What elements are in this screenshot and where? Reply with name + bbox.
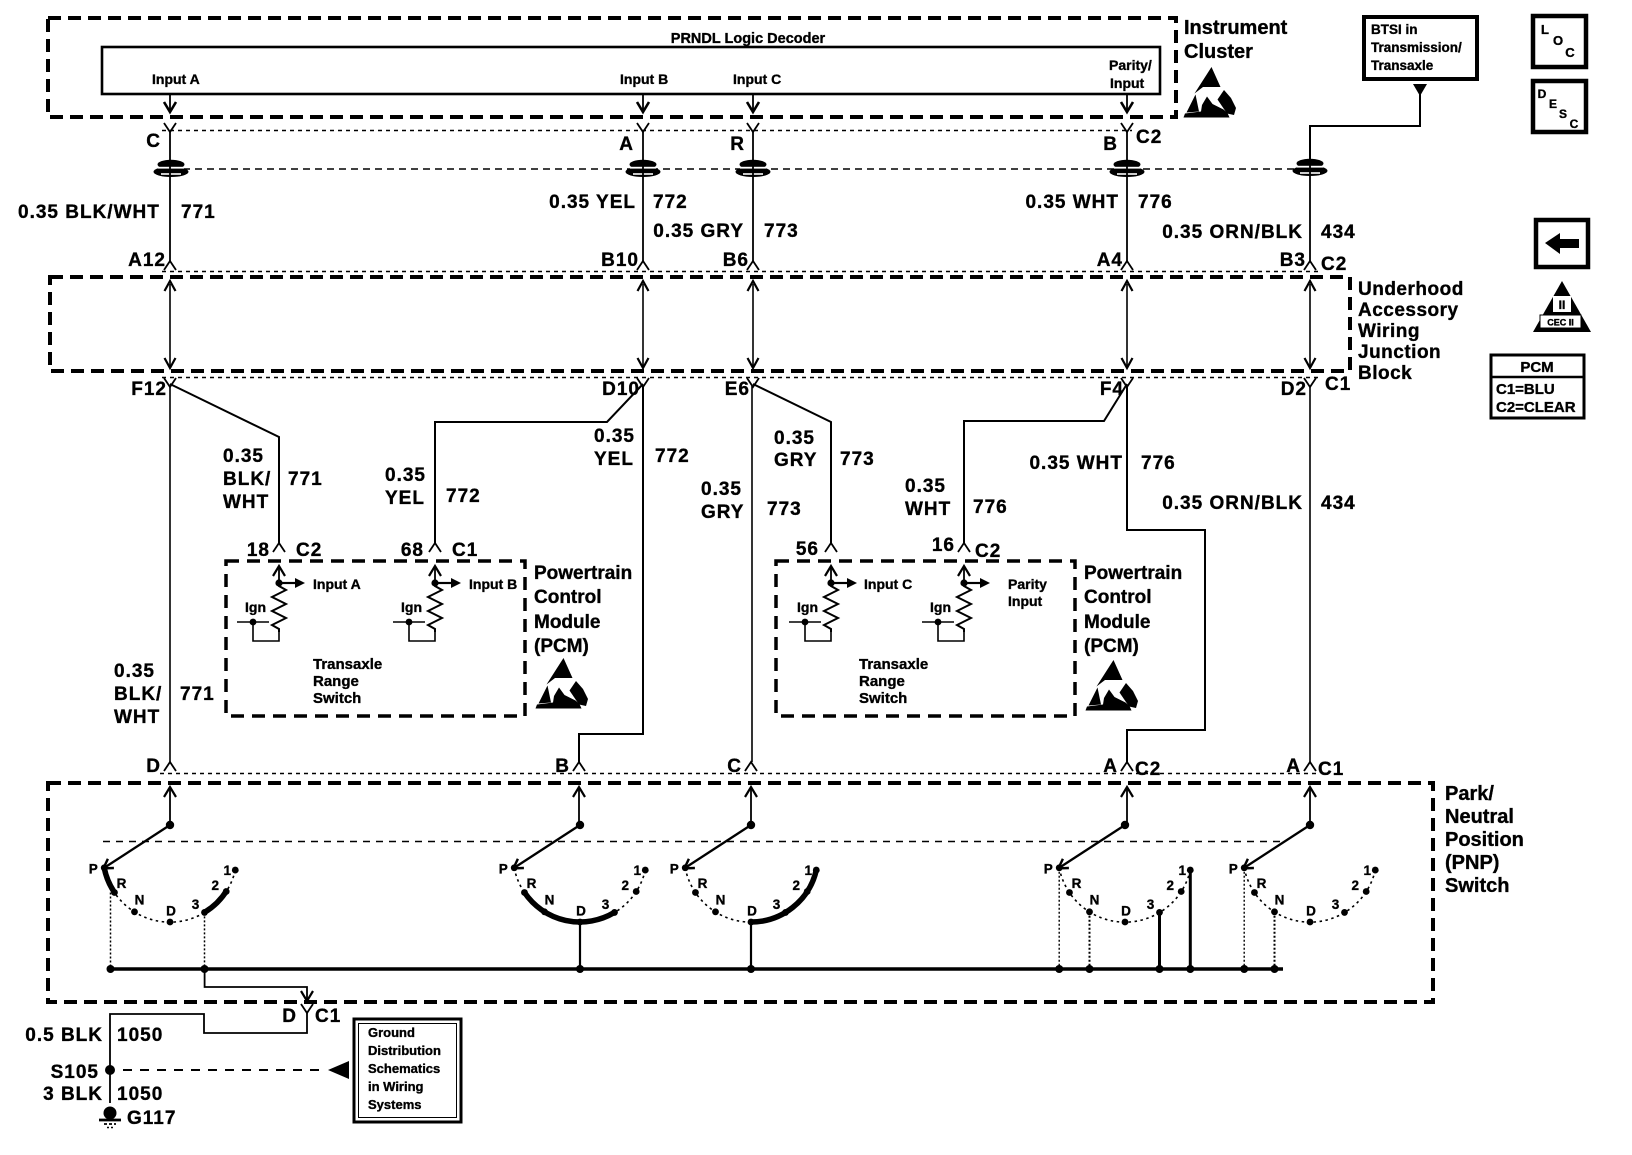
svg-text:Junction: Junction bbox=[1358, 342, 1441, 363]
svg-text:0.35: 0.35 bbox=[701, 479, 742, 500]
svg-text:Cluster: Cluster bbox=[1184, 41, 1253, 63]
svg-text:C1: C1 bbox=[315, 1006, 341, 1027]
wire 434 upper bbox=[1309, 160, 1311, 261]
PNP switch 4 contact D bbox=[1122, 919, 1129, 926]
svg-text:771: 771 bbox=[181, 202, 216, 223]
svg-text:D: D bbox=[747, 904, 757, 919]
PNP pin B fork bbox=[573, 762, 585, 771]
PNP switch 1 contact 2 bbox=[223, 888, 230, 895]
resistor input C circuit bbox=[825, 566, 837, 576]
junction block internal wire x=643 bbox=[642, 284, 644, 366]
CEC II triangle icon bbox=[1533, 281, 1591, 332]
PNP switch 1 tap wire from R bbox=[110, 893, 112, 970]
svg-text:F4: F4 bbox=[1100, 379, 1124, 400]
pin E6 fork bbox=[747, 378, 759, 387]
svg-text:Input C: Input C bbox=[733, 71, 781, 87]
svg-text:P: P bbox=[1229, 862, 1238, 877]
pin 18 C2 fork bbox=[273, 543, 285, 552]
pin F4 fork bbox=[1121, 378, 1133, 387]
svg-text:Parity: Parity bbox=[1008, 576, 1047, 592]
instrument cluster box bbox=[48, 18, 1176, 117]
wire 771 mid bbox=[169, 386, 171, 762]
svg-text:1: 1 bbox=[1179, 863, 1187, 878]
svg-text:P: P bbox=[1044, 862, 1053, 877]
PNP switch 4 tap wire from N bbox=[1089, 912, 1091, 969]
svg-text:D: D bbox=[1306, 904, 1316, 919]
PNP switch 3 wiper pivot bbox=[750, 788, 752, 825]
svg-text:1: 1 bbox=[634, 863, 642, 878]
PNP pin D fork bbox=[164, 762, 176, 771]
svg-text:Transaxle: Transaxle bbox=[1371, 58, 1434, 73]
PNP switch 4 contact 2 bbox=[1178, 888, 1185, 895]
svg-text:3: 3 bbox=[1147, 897, 1155, 912]
PNP switch 1 closed contact segment bbox=[104, 868, 114, 893]
svg-text:A: A bbox=[1103, 756, 1118, 777]
wire 773 mid bbox=[751, 386, 753, 762]
PNP switch 1 contact 1 bbox=[232, 867, 239, 874]
svg-text:0.35 GRY: 0.35 GRY bbox=[653, 221, 744, 242]
svg-text:C: C bbox=[146, 131, 161, 152]
svg-text:776: 776 bbox=[973, 497, 1008, 518]
svg-text:GRY: GRY bbox=[774, 450, 817, 471]
ground wire staircase bbox=[110, 1013, 307, 1103]
svg-text:Input B: Input B bbox=[469, 576, 517, 592]
svg-text:O: O bbox=[1553, 33, 1563, 48]
svg-text:Distribution: Distribution bbox=[368, 1043, 441, 1058]
splice S105 bbox=[105, 1065, 115, 1075]
PNP switch 3 contact P bbox=[682, 864, 689, 871]
ESD symbol PCM 2 bbox=[1086, 660, 1139, 711]
PNP switch 2 contact 3 bbox=[611, 909, 618, 916]
svg-text:WHT: WHT bbox=[905, 499, 951, 520]
PNP switch 4 contact P bbox=[1056, 864, 1063, 871]
PNP switch 1 contact N bbox=[131, 908, 138, 915]
svg-text:C1=BLU: C1=BLU bbox=[1496, 381, 1555, 398]
ground exit pin D C1 fork bbox=[301, 1004, 313, 1013]
svg-text:N: N bbox=[1275, 893, 1285, 908]
svg-text:Powertrain: Powertrain bbox=[1084, 563, 1182, 584]
svg-text:3 BLK: 3 BLK bbox=[43, 1084, 103, 1105]
svg-text:N: N bbox=[545, 893, 555, 908]
wire 434 from BTSI bbox=[1310, 94, 1420, 160]
ESD symbol instrument cluster bbox=[1184, 67, 1237, 118]
pin A12 fork bbox=[164, 261, 176, 270]
PNP ground bus bbox=[110, 967, 1283, 971]
svg-text:1050: 1050 bbox=[117, 1084, 163, 1105]
svg-text:C2: C2 bbox=[296, 540, 322, 561]
svg-text:776: 776 bbox=[1141, 453, 1176, 474]
svg-text:Input A: Input A bbox=[152, 71, 200, 87]
junction block internal wire x=1127 bbox=[1126, 284, 1128, 366]
PNP switch 2 contact N bbox=[541, 908, 548, 915]
svg-text:3: 3 bbox=[1332, 897, 1340, 912]
PNP switch 3 tap wire from D bbox=[750, 922, 752, 969]
svg-text:Park/: Park/ bbox=[1445, 783, 1494, 805]
PNP switch 2 contact R bbox=[521, 889, 528, 896]
PNP switch 5 contact 2 bbox=[1363, 888, 1370, 895]
svg-text:1: 1 bbox=[1364, 863, 1372, 878]
park/neutral position switch box bbox=[48, 783, 1433, 1002]
svg-text:R: R bbox=[117, 876, 127, 891]
svg-text:Transaxle: Transaxle bbox=[313, 656, 382, 673]
svg-text:0.35: 0.35 bbox=[385, 465, 426, 486]
svg-text:B: B bbox=[555, 756, 570, 777]
PNP switch 2 wiper pivot bbox=[578, 788, 580, 825]
svg-text:C: C bbox=[727, 756, 742, 777]
PNP switch 5 tap wire from P bbox=[1243, 868, 1245, 969]
svg-text:C: C bbox=[1570, 117, 1579, 131]
pin F12 fork bbox=[164, 378, 176, 387]
svg-text:A12: A12 bbox=[128, 250, 166, 271]
pin 68 C1 fork bbox=[429, 543, 441, 552]
svg-text:R: R bbox=[1257, 876, 1267, 891]
svg-text:16: 16 bbox=[932, 535, 955, 556]
svg-text:Ign: Ign bbox=[797, 599, 818, 615]
PNP switch 5 contact arc bbox=[1244, 868, 1375, 922]
svg-text:G117: G117 bbox=[127, 1108, 176, 1129]
svg-text:772: 772 bbox=[653, 192, 688, 213]
PNP switch 2 contact D bbox=[577, 919, 584, 926]
wire 772 mid bbox=[579, 386, 643, 762]
svg-text:Instrument: Instrument bbox=[1184, 17, 1288, 39]
PNP switch 5 contact D bbox=[1307, 919, 1314, 926]
PNP switch 1 contact 3 bbox=[201, 909, 208, 916]
PNP pin A-C2 fork bbox=[1121, 762, 1133, 771]
svg-text:18: 18 bbox=[247, 540, 270, 561]
svg-text:0.35: 0.35 bbox=[774, 428, 815, 449]
svg-text:C2: C2 bbox=[1321, 254, 1347, 275]
pin 16 C2 fork bbox=[958, 543, 970, 552]
wire Input B output arrow bbox=[642, 94, 644, 110]
wire Input C output arrow bbox=[752, 94, 754, 110]
PNP switch 5 contact N bbox=[1271, 908, 1278, 915]
svg-text:773: 773 bbox=[767, 499, 802, 520]
svg-text:772: 772 bbox=[655, 446, 690, 467]
svg-text:0.35: 0.35 bbox=[905, 476, 946, 497]
svg-text:2: 2 bbox=[1351, 878, 1359, 893]
PNP switch 2 closed contact segment bbox=[525, 893, 615, 922]
svg-text:1: 1 bbox=[224, 863, 232, 878]
pin B6 fork bbox=[747, 261, 759, 270]
svg-text:Input A: Input A bbox=[313, 576, 361, 592]
PNP switch 1 wiper arm bbox=[103, 825, 170, 869]
svg-text:E: E bbox=[1549, 97, 1557, 111]
svg-text:PCM: PCM bbox=[1520, 359, 1553, 376]
svg-text:2: 2 bbox=[621, 878, 629, 893]
svg-text:0.35 WHT: 0.35 WHT bbox=[1025, 192, 1119, 213]
ground distribution reference box bbox=[354, 1019, 461, 1122]
svg-text:Underhood: Underhood bbox=[1358, 279, 1464, 300]
svg-text:D: D bbox=[1538, 87, 1547, 101]
svg-text:D10: D10 bbox=[602, 379, 640, 400]
pin C fork bbox=[164, 123, 176, 132]
svg-text:A: A bbox=[619, 134, 634, 155]
PNP switch 2 wiper arm bbox=[513, 825, 580, 869]
wire 772 upper bbox=[642, 131, 644, 261]
svg-text:B10: B10 bbox=[601, 250, 639, 271]
PNP switch 4 wiper arm bbox=[1058, 825, 1125, 869]
wire 776 upper bbox=[1126, 131, 1128, 261]
svg-text:Ign: Ign bbox=[930, 599, 951, 615]
resistor input B circuit bbox=[429, 566, 441, 576]
svg-text:A: A bbox=[1286, 756, 1301, 777]
svg-text:A4: A4 bbox=[1097, 250, 1123, 271]
svg-text:Input C: Input C bbox=[864, 576, 912, 592]
PNP switch 3 contact arc bbox=[685, 868, 816, 922]
svg-text:0.35 ORN/BLK: 0.35 ORN/BLK bbox=[1162, 493, 1303, 514]
ground G117 symbol bbox=[104, 1107, 117, 1120]
svg-text:C1: C1 bbox=[1318, 759, 1344, 780]
svg-text:B3: B3 bbox=[1280, 250, 1306, 271]
PNP switch 3 wiper arm bbox=[684, 825, 751, 869]
resistor input A circuit bbox=[273, 566, 285, 576]
PNP switch 4 tap wire from 3 bbox=[1158, 912, 1161, 969]
junction block internal wire x=753 bbox=[752, 284, 754, 366]
svg-text:R: R bbox=[1072, 876, 1082, 891]
PNP switch 1 contact D bbox=[167, 919, 174, 926]
PNP switch 1 wiper pivot bbox=[169, 788, 171, 825]
PNP switch 5 tap wire from N bbox=[1274, 912, 1276, 969]
svg-text:Control: Control bbox=[1084, 587, 1152, 608]
svg-text:C1: C1 bbox=[452, 540, 478, 561]
PNP switch 4 contact arc bbox=[1059, 868, 1190, 922]
svg-text:WHT: WHT bbox=[223, 492, 269, 513]
svg-text:YEL: YEL bbox=[594, 449, 634, 470]
svg-text:D: D bbox=[146, 756, 161, 777]
wire 773 branch to PCM bbox=[753, 384, 831, 543]
wire 434 mid bbox=[1309, 386, 1311, 762]
PNP switch 2 tap wire from D bbox=[579, 922, 581, 969]
svg-text:YEL: YEL bbox=[385, 488, 425, 509]
svg-text:Systems: Systems bbox=[368, 1097, 421, 1112]
svg-text:C: C bbox=[1565, 45, 1575, 60]
svg-text:C1: C1 bbox=[1325, 374, 1351, 395]
svg-text:N: N bbox=[135, 893, 145, 908]
PNP wiper guide line bbox=[103, 841, 1280, 843]
svg-text:Switch: Switch bbox=[1445, 875, 1509, 897]
instrument cluster connector line bbox=[162, 130, 1132, 132]
PNP switch 2 contact arc bbox=[514, 868, 645, 922]
svg-text:771: 771 bbox=[288, 469, 323, 490]
svg-text:R: R bbox=[527, 876, 537, 891]
svg-text:B6: B6 bbox=[723, 250, 749, 271]
PNP switch 4 contact 1 bbox=[1187, 867, 1194, 874]
back-arrow icon box bbox=[1536, 220, 1588, 267]
PCM box 1 bbox=[226, 561, 525, 716]
svg-text:0.35 WHT: 0.35 WHT bbox=[1029, 453, 1123, 474]
svg-text:D2: D2 bbox=[1281, 379, 1307, 400]
svg-text:CEC II: CEC II bbox=[1547, 318, 1574, 328]
BTSI arrow bbox=[1413, 84, 1427, 96]
grommet on wire B bbox=[1110, 160, 1145, 177]
svg-text:B: B bbox=[1103, 134, 1118, 155]
PNP connector line bbox=[160, 773, 1320, 775]
pin D10 fork bbox=[637, 378, 649, 387]
LOC icon box bbox=[1533, 16, 1586, 67]
junction block bottom connector line bbox=[162, 377, 1320, 379]
svg-text:Input: Input bbox=[1008, 593, 1043, 609]
PNP pin C fork bbox=[745, 762, 757, 771]
pin A4 fork bbox=[1121, 261, 1133, 270]
svg-text:Switch: Switch bbox=[859, 690, 907, 707]
svg-text:BLK/: BLK/ bbox=[223, 469, 271, 490]
svg-text:L: L bbox=[1541, 22, 1549, 37]
svg-text:Parity/: Parity/ bbox=[1109, 57, 1152, 73]
pin B10 fork bbox=[637, 261, 649, 270]
svg-text:Module: Module bbox=[534, 612, 601, 633]
svg-text:N: N bbox=[716, 893, 726, 908]
svg-text:WHT: WHT bbox=[114, 707, 160, 728]
PNP switch 3 contact N bbox=[712, 908, 719, 915]
junction block top connector line bbox=[162, 271, 1320, 273]
DESC icon box bbox=[1533, 81, 1586, 132]
svg-text:Ground: Ground bbox=[368, 1025, 415, 1040]
svg-text:3: 3 bbox=[602, 897, 610, 912]
svg-text:0.5 BLK: 0.5 BLK bbox=[25, 1025, 103, 1046]
PNP pin A-C1 fork bbox=[1304, 762, 1316, 771]
svg-text:D: D bbox=[576, 904, 586, 919]
svg-text:P: P bbox=[89, 862, 98, 877]
PNP switch 3 contact 2 bbox=[804, 888, 811, 895]
PNP switch 4 tap wire from P bbox=[1058, 868, 1060, 969]
PRNDL logic decoder inner box bbox=[102, 47, 1160, 94]
svg-text:S: S bbox=[1559, 107, 1567, 121]
svg-text:D: D bbox=[166, 904, 176, 919]
wire 773 upper bbox=[752, 131, 754, 261]
PNP switch 2 contact P bbox=[511, 864, 518, 871]
svg-text:Control: Control bbox=[534, 587, 602, 608]
svg-text:0.35: 0.35 bbox=[594, 426, 635, 447]
svg-text:773: 773 bbox=[840, 449, 875, 470]
junction block internal wire x=1310 bbox=[1309, 284, 1311, 366]
wire 776 branch to PCM bbox=[964, 384, 1127, 543]
wire 772 branch to PCM bbox=[435, 384, 643, 543]
svg-text:(PCM): (PCM) bbox=[1084, 636, 1139, 657]
svg-text:434: 434 bbox=[1321, 222, 1356, 243]
wire 771 branch to PCM bbox=[170, 384, 279, 543]
grommet on wire 434 bbox=[1293, 159, 1328, 176]
PNP switch 1 contact R bbox=[111, 889, 118, 896]
svg-text:F12: F12 bbox=[131, 379, 167, 400]
PNP switch 5 wiper pivot bbox=[1309, 788, 1311, 825]
svg-text:P: P bbox=[670, 862, 679, 877]
svg-text:Transaxle: Transaxle bbox=[859, 656, 928, 673]
svg-text:P: P bbox=[499, 862, 508, 877]
svg-text:N: N bbox=[1090, 893, 1100, 908]
svg-text:Input: Input bbox=[1110, 75, 1145, 91]
svg-text:C2=CLEAR: C2=CLEAR bbox=[1496, 399, 1576, 416]
PNP switch 2 contact 2 bbox=[633, 888, 640, 895]
svg-text:56: 56 bbox=[796, 539, 819, 560]
svg-text:Module: Module bbox=[1084, 612, 1151, 633]
svg-text:C2: C2 bbox=[1135, 759, 1161, 780]
svg-text:GRY: GRY bbox=[701, 502, 744, 523]
PNP switch 5 contact 1 bbox=[1372, 867, 1379, 874]
pin R fork bbox=[747, 123, 759, 132]
svg-text:in Wiring: in Wiring bbox=[368, 1079, 424, 1094]
svg-text:2: 2 bbox=[792, 878, 800, 893]
PNP switch 1 contact arc bbox=[104, 868, 235, 922]
svg-text:D: D bbox=[282, 1006, 297, 1027]
svg-text:Powertrain: Powertrain bbox=[534, 563, 632, 584]
bulkhead dashed line bbox=[171, 168, 1325, 170]
svg-text:Input B: Input B bbox=[620, 71, 668, 87]
PNP switch 1 closed contact segment bbox=[205, 890, 228, 913]
svg-text:Block: Block bbox=[1358, 363, 1412, 384]
resistor parity circuit bbox=[958, 566, 970, 576]
pin A fork bbox=[637, 123, 649, 132]
svg-text:E6: E6 bbox=[725, 379, 750, 400]
svg-text:D: D bbox=[1121, 904, 1131, 919]
svg-text:0.35: 0.35 bbox=[223, 446, 264, 467]
svg-text:0.35 YEL: 0.35 YEL bbox=[549, 192, 636, 213]
PNP switch 1 contact P bbox=[101, 864, 108, 871]
svg-text:1050: 1050 bbox=[117, 1025, 163, 1046]
PNP switch 4 contact R bbox=[1066, 889, 1073, 896]
BTSI in Transmission/Transaxle box bbox=[1364, 17, 1477, 79]
wire Parity output arrow bbox=[1126, 94, 1128, 110]
PNP switch 3 contact D bbox=[748, 919, 755, 926]
svg-text:Ign: Ign bbox=[245, 599, 266, 615]
wire 776 mid bbox=[1127, 386, 1205, 762]
svg-text:C2: C2 bbox=[1136, 127, 1162, 148]
svg-text:1: 1 bbox=[805, 863, 813, 878]
svg-text:773: 773 bbox=[764, 221, 799, 242]
PNP switch 3 contact R bbox=[692, 889, 699, 896]
svg-text:Neutral: Neutral bbox=[1445, 806, 1514, 828]
svg-text:BLK/: BLK/ bbox=[114, 684, 162, 705]
svg-text:0.35 BLK/WHT: 0.35 BLK/WHT bbox=[18, 202, 160, 223]
PNP switch 5 wiper arm bbox=[1243, 825, 1310, 869]
underhood junction block box bbox=[50, 277, 1350, 371]
svg-text:Transmission/: Transmission/ bbox=[1371, 40, 1462, 55]
svg-text:II: II bbox=[1559, 298, 1566, 312]
grommet on wire A bbox=[626, 160, 661, 177]
svg-text:R: R bbox=[698, 876, 708, 891]
PNP switch 2 contact 1 bbox=[642, 867, 649, 874]
pin D2 fork bbox=[1304, 378, 1316, 387]
PNP switch 3 contact 3 bbox=[782, 909, 789, 916]
svg-text:0.35 ORN/BLK: 0.35 ORN/BLK bbox=[1162, 222, 1303, 243]
svg-text:772: 772 bbox=[446, 486, 481, 507]
svg-text:Wiring: Wiring bbox=[1358, 321, 1420, 342]
ESD symbol PCM 1 bbox=[536, 658, 589, 709]
pin B fork bbox=[1121, 123, 1133, 132]
PNP switch 3 contact 1 bbox=[813, 867, 820, 874]
svg-text:PRNDL Logic Decoder: PRNDL Logic Decoder bbox=[671, 31, 826, 47]
svg-text:(PNP): (PNP) bbox=[1445, 852, 1499, 874]
svg-text:BTSI in: BTSI in bbox=[1371, 22, 1418, 37]
PNP switch 4 wiper pivot bbox=[1126, 788, 1128, 825]
svg-text:771: 771 bbox=[180, 684, 215, 705]
svg-text:2: 2 bbox=[1166, 878, 1174, 893]
svg-text:C2: C2 bbox=[975, 541, 1001, 562]
svg-text:Accessory: Accessory bbox=[1358, 300, 1459, 321]
svg-text:Ign: Ign bbox=[401, 599, 422, 615]
svg-text:Range: Range bbox=[313, 673, 359, 690]
svg-text:2: 2 bbox=[211, 878, 219, 893]
svg-text:434: 434 bbox=[1321, 493, 1356, 514]
svg-text:776: 776 bbox=[1138, 192, 1173, 213]
PNP switch 5 contact P bbox=[1241, 864, 1248, 871]
svg-text:R: R bbox=[730, 134, 745, 155]
grommet on wire C bbox=[154, 160, 189, 177]
svg-text:S105: S105 bbox=[51, 1062, 99, 1083]
PNP switch 4 contact N bbox=[1086, 908, 1093, 915]
pin 56 fork bbox=[825, 543, 837, 552]
svg-text:0.35: 0.35 bbox=[114, 661, 155, 682]
svg-text:Range: Range bbox=[859, 673, 905, 690]
